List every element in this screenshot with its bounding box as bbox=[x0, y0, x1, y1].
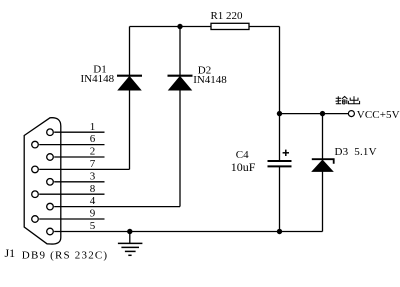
output terminal circle bbox=[348, 111, 354, 117]
svg-text:7: 7 bbox=[90, 158, 96, 170]
label 输出 (output) bbox=[336, 96, 348, 104]
pin 3 bbox=[47, 179, 105, 186]
wire D2 anode down to pin 4 bbox=[179, 90, 181, 207]
svg-text:D3 5.1V: D3 5.1V bbox=[335, 146, 377, 158]
svg-text:10uF: 10uF bbox=[231, 160, 256, 174]
svg-text:2: 2 bbox=[90, 146, 96, 158]
diode D2 bbox=[168, 76, 193, 90]
pin 8 bbox=[32, 191, 105, 198]
pin 5 + ground rail wire bbox=[47, 228, 323, 235]
pin 2 bbox=[47, 154, 105, 161]
wire D2 cathode up to top rail bbox=[179, 27, 181, 76]
junction dot D3 branch bbox=[320, 111, 325, 116]
svg-text:IN4148: IN4148 bbox=[80, 73, 114, 85]
junction dot top rail / D2 bbox=[177, 24, 182, 29]
svg-text:8: 8 bbox=[90, 183, 96, 195]
svg-text:9: 9 bbox=[90, 208, 96, 220]
wire output branch bbox=[280, 113, 349, 115]
junction dot output branch bbox=[277, 111, 282, 116]
svg-text:R1 220: R1 220 bbox=[210, 10, 243, 22]
connector J1 shell bbox=[24, 118, 61, 244]
resistor R1 bbox=[211, 23, 249, 29]
junction dot ground symbol bbox=[127, 229, 132, 234]
pin 7 + wire to D1 anode bbox=[32, 166, 130, 173]
svg-text:1: 1 bbox=[90, 121, 96, 133]
wire main vertical top segment (R1 to C4 top plate) bbox=[279, 27, 281, 162]
wire D3 bottom (zener to ground rail) bbox=[322, 171, 324, 231]
wire main vertical bottom segment (C4 bottom to ground rail) bbox=[279, 166, 281, 231]
pin 1 bbox=[47, 129, 105, 136]
svg-text:6: 6 bbox=[90, 133, 96, 145]
wire D1 cathode up to top rail bbox=[129, 27, 131, 76]
pin 6 bbox=[32, 141, 105, 148]
diode D1 bbox=[117, 76, 142, 90]
svg-text:4: 4 bbox=[90, 195, 96, 207]
svg-text:IN4148: IN4148 bbox=[193, 74, 227, 86]
wire top rail from D1 to R1 bbox=[130, 26, 212, 28]
wire D1 anode down to pin 7 bbox=[129, 90, 131, 169]
capacitor C4 bbox=[268, 161, 292, 166]
pin 4 + wire to D2 anode bbox=[47, 203, 180, 210]
svg-text:VCC+5V: VCC+5V bbox=[357, 109, 400, 121]
pin 9 bbox=[32, 216, 105, 223]
svg-text:DB9 (RS 232C): DB9 (RS 232C) bbox=[22, 249, 109, 261]
svg-text:J1: J1 bbox=[5, 246, 16, 260]
svg-text:3: 3 bbox=[90, 170, 96, 182]
C4 plus polarity mark bbox=[283, 150, 289, 156]
junction dot C4 / ground rail bbox=[277, 229, 282, 234]
svg-text:5: 5 bbox=[90, 220, 96, 232]
zener diode D3 bbox=[312, 159, 334, 171]
wire D3 top (output line to zener bar) bbox=[322, 114, 324, 160]
ground bbox=[118, 232, 142, 256]
wire R1 right to main vertical bbox=[249, 26, 280, 28]
